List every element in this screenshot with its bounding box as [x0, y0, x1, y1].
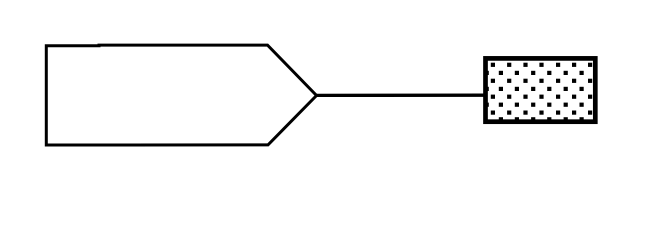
- pointed box (plug / connector body): [46, 45, 316, 145]
- wire: [317, 94, 486, 98]
- stippled box (component block): [485, 58, 596, 121]
